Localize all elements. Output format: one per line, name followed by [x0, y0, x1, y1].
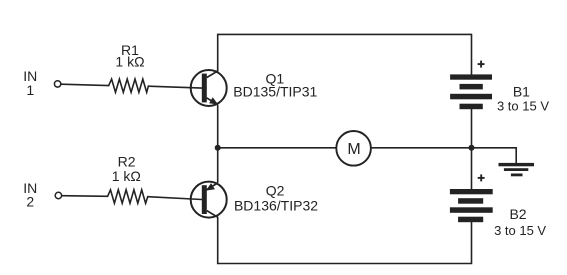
- ground: [499, 163, 535, 176]
- motor M: [336, 131, 371, 166]
- wire Q1 emitter to node A: [217, 105, 219, 148]
- svg-text:3 to 15 V: 3 to 15 V: [494, 223, 546, 238]
- wire IN2 terminal to R2: [62, 195, 108, 198]
- svg-text:M: M: [347, 141, 360, 158]
- svg-text:BD135/TIP31: BD135/TIP31: [233, 84, 317, 100]
- wire R1 to Q1 base: [148, 86, 202, 88]
- plus sign B1: [478, 61, 485, 68]
- wire node A to Q2 emitter: [217, 148, 219, 183]
- svg-text:B1: B1: [513, 84, 530, 100]
- wire node A to motor: [218, 147, 337, 149]
- wire bottom rail: [218, 217, 472, 263]
- svg-text:1: 1: [26, 82, 34, 98]
- svg-text:B2: B2: [509, 206, 526, 222]
- plus sign B2: [478, 174, 485, 181]
- label IN 1: [23, 68, 37, 98]
- wire B1 bottom to node B: [471, 109, 473, 148]
- label IN 2: [23, 180, 37, 209]
- label B1 value: [497, 84, 549, 114]
- label R2 value: [112, 154, 141, 184]
- battery B2: [450, 189, 493, 222]
- svg-text:1 kΩ: 1 kΩ: [112, 168, 141, 184]
- wire IN1 terminal to R1: [61, 84, 109, 85]
- svg-text:3 to 15 V: 3 to 15 V: [497, 98, 549, 113]
- transistor Q2: [191, 182, 227, 218]
- label B2 value: [494, 206, 546, 238]
- node B junction dot: [469, 145, 475, 151]
- terminal IN2: [55, 192, 61, 198]
- wire R2 to Q2 base: [148, 197, 202, 200]
- svg-text:Q2: Q2: [266, 183, 285, 199]
- resistor R2: [108, 190, 148, 204]
- battery B1: [450, 74, 492, 109]
- svg-text:BD136/TIP32: BD136/TIP32: [234, 198, 318, 214]
- label R1 value: [115, 42, 144, 70]
- svg-text:2: 2: [26, 193, 34, 209]
- transistor Q1: [191, 70, 227, 106]
- wire motor to node B and ground branch: [371, 148, 516, 164]
- label Q1: [233, 70, 317, 99]
- wire top rail: [218, 34, 472, 74]
- label Q2: [234, 183, 318, 214]
- wire node B to B2 top: [471, 148, 473, 189]
- resistor R1: [109, 79, 149, 92]
- node A junction dot: [215, 145, 221, 151]
- svg-text:1 kΩ: 1 kΩ: [115, 54, 144, 70]
- terminal IN1: [54, 81, 60, 87]
